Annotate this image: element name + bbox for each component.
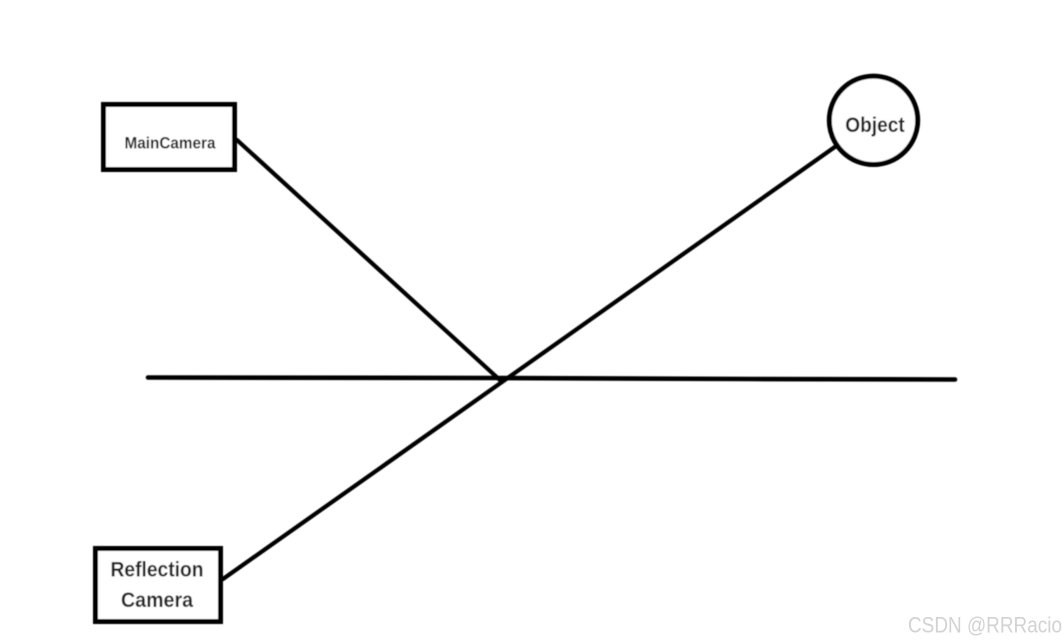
watermark CSDN [908, 613, 1062, 638]
svg-text:Object: Object [845, 114, 905, 137]
svg-text:MainCamera: MainCamera [125, 133, 216, 152]
box Reflection Camera [96, 549, 221, 622]
wire ray MainCamera to mirror point [237, 140, 501, 381]
wire ray Reflection Camera to Object [223, 147, 836, 580]
svg-text:Camera: Camera [121, 589, 193, 612]
wire mirror horizontal line [148, 378, 955, 380]
node Object circle [829, 76, 917, 164]
box MainCamera [104, 105, 235, 170]
svg-text:Reflection: Reflection [111, 559, 204, 582]
svg-text:CSDN @RRRacio: CSDN @RRRacio [908, 613, 1062, 638]
